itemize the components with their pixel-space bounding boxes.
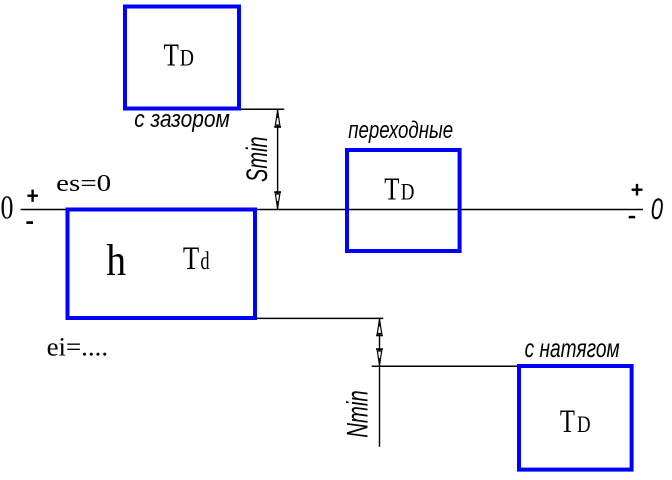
svg-text:T: T xyxy=(164,38,179,73)
minus sign (right) xyxy=(629,216,636,219)
Smin arrow down xyxy=(275,194,279,209)
Nmin arrow down xyxy=(377,351,381,365)
svg-text:T: T xyxy=(560,404,575,440)
Nmin arrow up xyxy=(377,319,381,333)
svg-text:d: d xyxy=(200,248,210,275)
svg-text:ei=....: ei=.... xyxy=(47,332,108,361)
Nmin dimension line xyxy=(379,318,381,446)
plus sign (left) xyxy=(27,190,38,202)
svg-text:0: 0 xyxy=(1,190,14,227)
svg-text:es=0: es=0 xyxy=(56,170,111,197)
transitional-fit hole tolerance zone TD rectangle xyxy=(347,150,460,251)
Smin dimension line xyxy=(277,109,279,209)
extension line to interference zone top xyxy=(372,365,518,367)
svg-text:с зазором: с зазором xyxy=(134,106,230,133)
svg-text:T: T xyxy=(183,241,199,277)
svg-text:h: h xyxy=(106,236,126,285)
extension line from shaft zone bottom xyxy=(255,317,383,319)
svg-text:T: T xyxy=(384,171,399,206)
svg-text:0: 0 xyxy=(651,193,664,226)
svg-text:с натягом: с натягом xyxy=(525,333,620,363)
svg-text:Smin: Smin xyxy=(241,137,274,183)
Smin arrow up xyxy=(275,111,279,126)
plus sign (right) xyxy=(632,184,643,196)
svg-text:Nmin: Nmin xyxy=(341,390,374,438)
zero line (horizontal axis) xyxy=(21,209,643,211)
svg-text:D: D xyxy=(180,46,194,71)
svg-text:D: D xyxy=(401,179,415,204)
minus sign (left) xyxy=(26,221,33,224)
extension line from clearance zone corner xyxy=(241,108,284,110)
clearance-fit hole tolerance zone TD rectangle xyxy=(125,7,239,109)
interference-fit hole tolerance zone TD rectangle xyxy=(519,366,632,470)
tolerance zone h (shaft Td) rectangle xyxy=(68,210,256,319)
svg-text:D: D xyxy=(577,412,591,437)
svg-text:переходные: переходные xyxy=(348,117,453,144)
